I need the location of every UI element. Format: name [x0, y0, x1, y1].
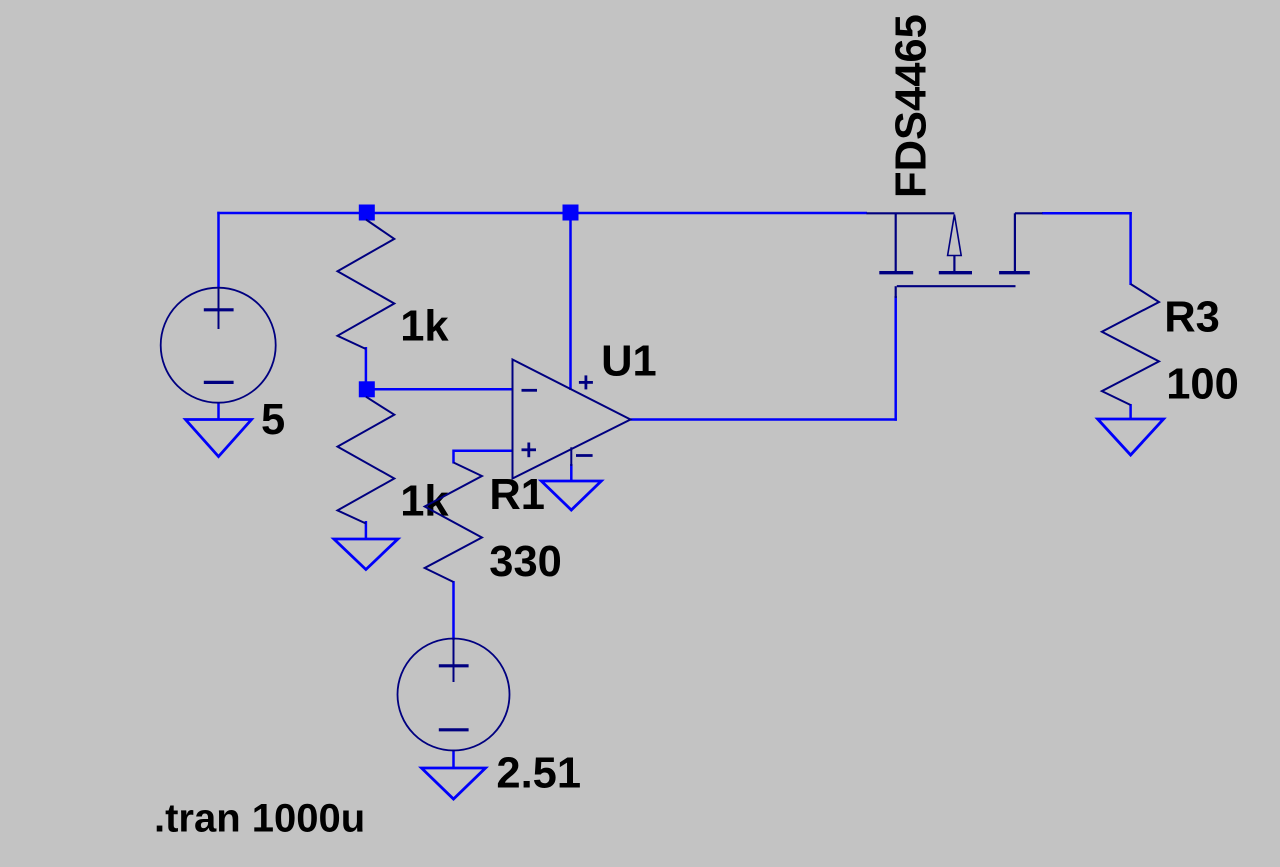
svg-text:R3: R3 — [1164, 294, 1220, 342]
MOSFET M1 (FDS4465, P-channel) — [867, 213, 1043, 298]
ground below R3 — [1098, 419, 1164, 455]
ground below R2b — [334, 539, 398, 570]
svg-text:2.51: 2.51 — [496, 750, 581, 798]
wire opamp V+ supply drop at x=570.5 — [569, 213, 572, 390]
wire opamp V- lead to ground — [570, 464, 573, 482]
svg-text:100: 100 — [1166, 360, 1239, 408]
svg-text:FDS4465: FDS4465 — [888, 14, 936, 198]
svg-text:1k: 1k — [400, 478, 449, 526]
wire gate column vertical — [894, 296, 897, 421]
resistor R3 — [1102, 284, 1159, 405]
op-amp U1 — [513, 360, 631, 479]
wire R2b bottom lead to ground — [365, 521, 368, 540]
wire V1 top lead — [217, 212, 220, 288]
wire middle row node to opamp -in — [367, 388, 514, 391]
svg-text:5: 5 — [261, 396, 285, 444]
ground below V2 — [422, 768, 486, 799]
ground below opamp V- — [541, 481, 601, 510]
resistor 1k (top, R2a) — [338, 220, 395, 350]
wire M1 to R3 horizontal — [1042, 212, 1132, 215]
wire R3 top lead — [1129, 212, 1132, 285]
wire opamp output to gate column — [631, 418, 897, 421]
ground below V1 — [186, 420, 252, 457]
wire V2 bottom lead to ground — [452, 750, 455, 770]
wire top rail from V1 to M1 — [217, 212, 867, 215]
resistor R1 — [425, 463, 482, 583]
svg-text:U1: U1 — [601, 337, 657, 385]
wire V1 bottom lead to ground — [217, 402, 220, 421]
junction top rail at opamp supply — [563, 205, 579, 221]
wire R1 bottom lead to V2 — [452, 581, 455, 640]
junction top rail at R2 — [359, 205, 375, 221]
svg-text:330: 330 — [489, 538, 562, 586]
svg-text:1k: 1k — [400, 303, 449, 351]
voltage source V2 (2.51V) — [398, 639, 510, 751]
svg-text:R1: R1 — [489, 471, 545, 519]
junction middle node — [359, 381, 375, 397]
wire R3 bottom lead to ground — [1129, 404, 1132, 420]
wire opamp +in horizontal — [454, 449, 514, 452]
wire opamp +in corner down to R1 — [452, 450, 455, 464]
svg-text:.tran 1000u: .tran 1000u — [154, 797, 365, 841]
voltage source V1 (5V) — [161, 288, 276, 403]
resistor 1k (bottom, R2b) — [338, 397, 395, 524]
wire R2 top resistor bottom lead — [365, 347, 368, 389]
